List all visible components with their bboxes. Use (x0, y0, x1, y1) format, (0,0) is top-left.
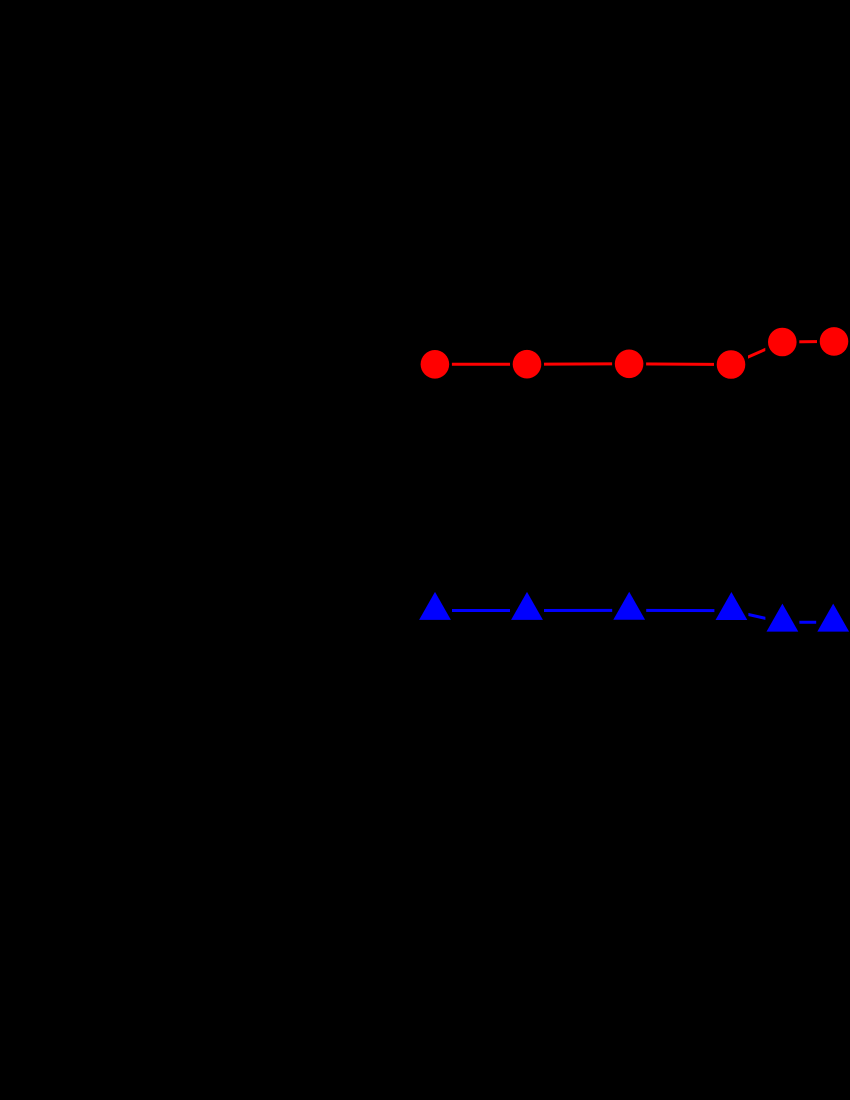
red marker 2 (513, 350, 542, 379)
blue marker 5 (767, 604, 799, 632)
blue marker 4 (716, 592, 748, 620)
red marker 6 (820, 327, 849, 356)
red marker 4 (717, 350, 746, 379)
blue marker 2 (511, 592, 543, 620)
red marker 1 (421, 350, 450, 379)
red marker 5 (768, 328, 797, 357)
blue marker 1 (419, 592, 451, 620)
blue series polyline (435, 610, 833, 622)
red series marker gap boxes (418, 324, 850, 381)
blue marker 3 (613, 592, 645, 620)
blue marker 6 (817, 604, 849, 632)
blue series marker gap boxes (418, 593, 850, 639)
red series polyline (435, 341, 834, 364)
red marker 3 (615, 350, 644, 379)
